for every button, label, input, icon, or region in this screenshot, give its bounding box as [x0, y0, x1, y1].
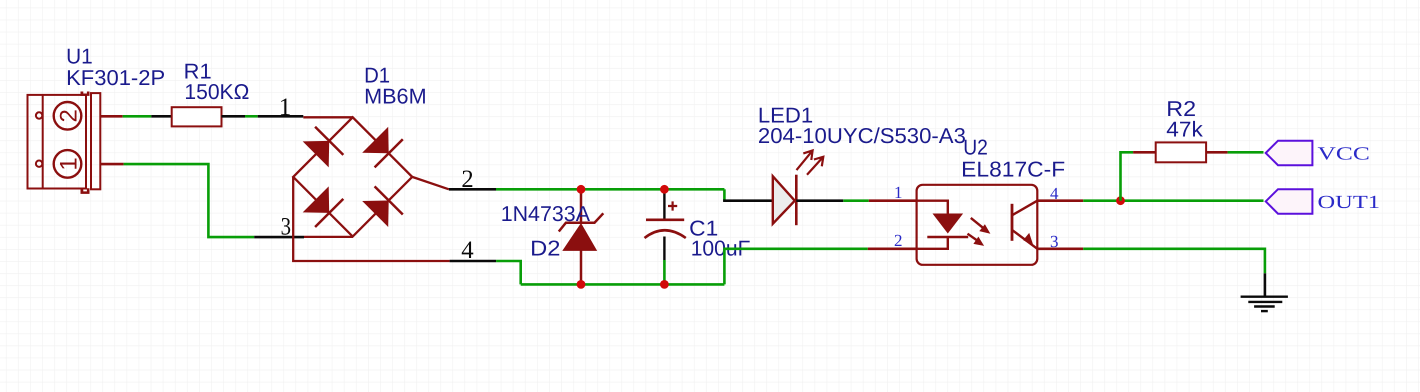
wire LED1 to U2 (black) — [796, 199, 843, 202]
wire U1.2 to R1 (green) — [123, 115, 152, 118]
wire to R1 (black) — [151, 115, 171, 118]
connector U1 KF301-2P — [28, 93, 101, 189]
svg-text:D2: D2 — [530, 237, 560, 261]
U1 pin 1 lead — [101, 163, 124, 166]
svg-text:VCC: VCC — [1318, 144, 1370, 164]
U1 mounting tab bottom — [81, 188, 90, 194]
svg-text:1: 1 — [894, 183, 903, 202]
U2 internal arrow 2 — [968, 234, 980, 242]
node: junction dot C1 top — [660, 185, 669, 194]
node: junction dot C1 bottom — [660, 280, 669, 289]
svg-text:U2: U2 — [963, 136, 988, 160]
svg-text:2: 2 — [461, 166, 473, 193]
capacitor C1 100uF — [663, 189, 665, 220]
U2 pin 2 lead — [868, 248, 917, 251]
wire junction to R2 (green) — [1121, 152, 1134, 200]
U2 pin 4 lead — [1037, 199, 1083, 202]
svg-text:4: 4 — [461, 237, 474, 264]
LED LED1 — [773, 176, 795, 224]
zener diode D2 1N4733A — [559, 189, 604, 284]
D1 diode bottom-left — [303, 186, 330, 213]
U2 pin 1 lead — [869, 199, 917, 202]
wire to LED1 (black) — [723, 199, 780, 202]
D1 diode top-right — [362, 127, 389, 154]
svg-text:150KΩ: 150KΩ — [184, 80, 249, 104]
node: junction dot D2 bottom — [577, 280, 586, 289]
wire U1.1 to bridge pin3 (green, L-shape) — [124, 164, 255, 237]
wire segment (green) — [843, 199, 869, 202]
U2 pin 3 lead — [1037, 248, 1083, 251]
wire bottom bus to U2 pin 2 (green) — [724, 249, 867, 285]
svg-text:2: 2 — [894, 231, 903, 250]
svg-text:KF301-2P: KF301-2P — [66, 66, 165, 90]
U2 phototransistor Q — [1011, 204, 1014, 241]
svg-text:47k: 47k — [1166, 117, 1203, 141]
wire R2 to VCC (green) — [1228, 151, 1264, 154]
svg-text:MB6M: MB6M — [364, 85, 427, 109]
ground lead (black) — [1264, 273, 1267, 296]
svg-text:4: 4 — [1050, 184, 1059, 203]
wire R1 to bridge (black) — [222, 115, 246, 118]
net flag VCC — [1266, 141, 1313, 166]
node: junction dot D2 top — [577, 185, 586, 194]
wire U2.4 to OUT1 (green) — [1083, 199, 1263, 202]
net flag OUT1 — [1266, 189, 1313, 214]
svg-text:204-10UYC/S530-A3: 204-10UYC/S530-A3 — [758, 124, 966, 148]
wire top bus to LED1 (green down-step then black) — [723, 189, 726, 200]
bridge rectifier D1 MB6M — [293, 117, 449, 261]
ground — [1241, 297, 1288, 311]
LED1 arrow 2 — [807, 157, 823, 175]
D1 diode top-left — [303, 141, 330, 168]
wire segment (green) — [245, 115, 258, 118]
svg-text:EL817C-F: EL817C-F — [961, 157, 1065, 181]
wire bridge pin4 (black) — [450, 260, 497, 263]
resistor R1 — [172, 107, 222, 126]
svg-text:1: 1 — [55, 157, 82, 170]
top bus wire (green) — [496, 188, 724, 191]
LED1 arrow 1 — [797, 151, 813, 171]
R2 right lead — [1206, 151, 1228, 154]
wire pin4 to bottom bus (green) — [496, 261, 521, 284]
svg-text:OUT1: OUT1 — [1318, 193, 1381, 213]
D1 diode bottom-right — [362, 201, 389, 228]
R2 left lead — [1133, 151, 1156, 154]
svg-text:1N4733A: 1N4733A — [501, 202, 591, 226]
wire U2.3 to ground (green) — [1083, 249, 1265, 273]
svg-text:3: 3 — [1050, 232, 1059, 251]
svg-text:1: 1 — [279, 94, 292, 121]
U2 internal arrow 1 — [971, 218, 985, 230]
wire bridge pin2 (black) — [449, 188, 496, 191]
bottom bus wire (green) — [521, 283, 725, 286]
wire into bridge pin3 (black) — [254, 236, 304, 239]
wire into bridge pin1 (black) — [258, 115, 304, 118]
optocoupler U2 EL817C-F — [917, 185, 1038, 265]
svg-text:3: 3 — [281, 214, 291, 241]
svg-text:2: 2 — [55, 109, 82, 122]
U1 mounting tab top — [81, 92, 90, 96]
U1 pin 2 lead — [101, 115, 123, 118]
node: junction dot OUT1/R2 — [1116, 196, 1125, 205]
resistor R2 — [1156, 142, 1206, 162]
U2 internal LED — [917, 201, 948, 214]
